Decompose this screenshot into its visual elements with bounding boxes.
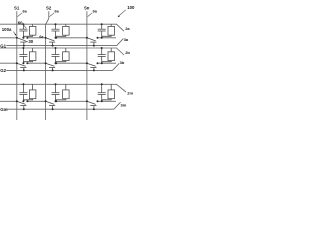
common line row3 right lead xyxy=(117,84,127,92)
gate line row3 right lead xyxy=(114,102,121,109)
common line row2 right lead xyxy=(117,48,125,55)
capacitor row3 col1 xyxy=(22,84,24,92)
svg-text:G2: G2 xyxy=(0,68,6,73)
gate line row1 wire xyxy=(6,45,116,47)
svg-text:S1: S1 xyxy=(14,5,20,10)
svg-text:Gm: Gm xyxy=(0,107,7,112)
pixel element box row2 col1 xyxy=(29,52,36,61)
capacitor row1 col2 xyxy=(55,24,57,29)
svg-text:S2: S2 xyxy=(46,5,52,10)
junction dots row3 col3 xyxy=(101,83,103,85)
common line row2 wire xyxy=(0,47,117,49)
capacitor row3 col3 xyxy=(101,84,103,92)
junction dots row1 col1 xyxy=(22,23,24,25)
TFT row2 col2 xyxy=(46,63,55,66)
gate line row1 right lead xyxy=(117,39,124,46)
svg-text:2b: 2b xyxy=(125,50,130,55)
TFT row2 col3 xyxy=(87,63,96,66)
gate line row2 wire xyxy=(6,69,112,71)
node wire row3 xyxy=(0,100,17,102)
svg-text:G1: G1 xyxy=(0,43,6,48)
capacitor row2 col3 xyxy=(101,48,103,55)
TFT row1 col2 xyxy=(46,38,55,41)
node wire row1 xyxy=(0,37,17,39)
common line row3 wire xyxy=(0,83,117,85)
TFT row1 col3 xyxy=(87,38,96,41)
gate line row3 wire xyxy=(6,108,114,110)
source line S1 wire xyxy=(16,11,18,120)
capacitor row2 col1 xyxy=(22,48,24,55)
pixel element box row3 col1 xyxy=(29,90,36,99)
pixel element box row1 col2 xyxy=(63,26,70,35)
pixel element box row2 col2 xyxy=(63,52,70,61)
svg-text:30: 30 xyxy=(28,39,33,44)
svg-text:3b: 3b xyxy=(120,60,125,65)
pixel element box row3 col2 xyxy=(63,90,70,99)
source line S2 wire (with jog) xyxy=(46,11,49,120)
junction dots row3 col1 xyxy=(22,83,24,85)
TFT row3 col2 xyxy=(46,101,55,104)
svg-text:2m: 2m xyxy=(127,91,133,96)
svg-text:100a: 100a xyxy=(2,27,12,32)
TFT row1 col1 xyxy=(17,38,26,41)
svg-text:100: 100 xyxy=(127,5,135,10)
junction dots row2 col1 xyxy=(22,47,24,49)
svg-text:60: 60 xyxy=(18,20,23,25)
junction dots row2 col3 xyxy=(101,47,103,49)
junction dots row2 col2 xyxy=(55,47,57,49)
svg-text:Sn: Sn xyxy=(84,5,90,10)
svg-text:2a: 2a xyxy=(125,26,130,31)
junction dots row1 col2 xyxy=(55,23,57,25)
pixel element box row1 col1 xyxy=(29,26,36,35)
capacitor row3 col2 xyxy=(55,84,57,92)
junction dots row1 col3 xyxy=(101,23,103,25)
source line Sn wire xyxy=(86,11,88,120)
svg-text:3m: 3m xyxy=(121,102,127,107)
pixel element box row3 col3 xyxy=(108,90,115,99)
node wire row2 xyxy=(0,62,17,64)
gate line row2 right lead xyxy=(113,63,120,70)
capacitor row1 col3 xyxy=(101,24,103,29)
common line row1 wire xyxy=(0,23,117,25)
svg-text:3a: 3a xyxy=(124,37,129,42)
capacitor row1 col1 xyxy=(22,24,24,29)
TFT row3 col1 xyxy=(17,101,26,104)
pixel element box row2 col3 xyxy=(108,52,115,61)
junction dots row3 col2 xyxy=(55,83,57,85)
capacitor row2 col2 xyxy=(55,48,57,55)
common line row1 right lead xyxy=(117,24,125,31)
pixel element box row1 col3 xyxy=(108,26,115,35)
TFT row3 col3 xyxy=(87,101,96,104)
TFT row2 col1 xyxy=(17,63,26,66)
